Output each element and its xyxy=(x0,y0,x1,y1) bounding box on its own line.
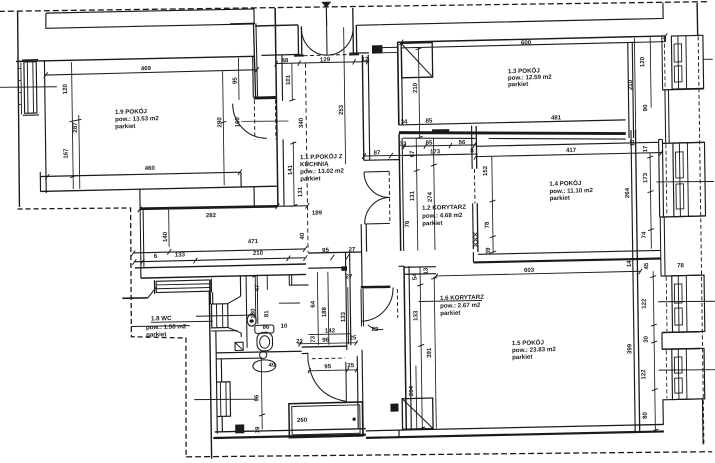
svg-text:parkiet: parkiet xyxy=(550,195,570,203)
korytarz bottom band xyxy=(399,265,405,267)
stair landing lintel xyxy=(254,96,276,99)
svg-text:96: 96 xyxy=(322,337,329,344)
WC washbasin xyxy=(247,314,256,326)
bathroom top wall xyxy=(216,351,302,354)
wall below window4 xyxy=(663,399,703,446)
dim chain 253 xyxy=(344,27,346,164)
svg-text:189: 189 xyxy=(312,209,323,216)
svg-text:82: 82 xyxy=(372,326,379,333)
window2 right (room 1.4) xyxy=(673,142,706,216)
svg-text:101: 101 xyxy=(285,74,292,85)
kitchen double door leaves xyxy=(364,171,390,224)
dim chain 1.5 right xyxy=(653,271,655,431)
dim row 95/25 lower xyxy=(308,370,358,372)
svg-text:274: 274 xyxy=(427,191,434,202)
svg-text:47: 47 xyxy=(254,284,261,292)
dim leader door 160 xyxy=(241,120,288,122)
stair door arc xyxy=(233,103,267,139)
svg-text:86: 86 xyxy=(263,324,270,331)
room 1.3 east wall xyxy=(628,42,634,138)
dim chain bathroom left xyxy=(260,358,263,429)
svg-text:188: 188 xyxy=(321,306,328,317)
black flue square left of bathroom xyxy=(235,424,244,433)
svg-text:87: 87 xyxy=(374,149,381,156)
svg-text:64: 64 xyxy=(310,300,317,308)
svg-text:481: 481 xyxy=(551,114,562,121)
room 1.3 top wall / 600 dim xyxy=(397,36,665,43)
north arrow at entrance xyxy=(321,2,331,8)
svg-text:95: 95 xyxy=(324,363,331,370)
svg-text:167: 167 xyxy=(63,148,70,159)
svg-text:204: 204 xyxy=(408,385,415,396)
1.6 label leader xyxy=(419,300,483,302)
bathtub leader xyxy=(194,398,256,401)
svg-text:19: 19 xyxy=(254,426,261,434)
dim chain 95 right of 1.9 xyxy=(237,58,240,100)
svg-text:131: 131 xyxy=(297,186,304,197)
svg-text:30: 30 xyxy=(643,335,650,343)
pier between window2 and window3 xyxy=(660,217,665,276)
svg-text:260: 260 xyxy=(297,417,308,424)
svg-text:287: 287 xyxy=(72,122,79,133)
entrance door jambs xyxy=(298,25,302,56)
wall between 1.4 and 1.5 xyxy=(478,250,661,255)
room 1.5 bottom wall band xyxy=(366,423,664,431)
svg-text:32: 32 xyxy=(400,141,407,148)
dim row 142 xyxy=(308,334,350,335)
svg-text:90: 90 xyxy=(642,104,649,112)
dim chain 1.3 left 210 xyxy=(418,48,419,137)
dashed line through right windows xyxy=(698,36,704,443)
shaft niche window xyxy=(210,280,213,304)
window2 leader xyxy=(656,180,714,182)
svg-text:152: 152 xyxy=(482,165,489,176)
room 1.9 west wall inner face xyxy=(44,61,46,193)
window left dashes xyxy=(662,37,670,398)
svg-text:290: 290 xyxy=(216,117,223,128)
window 1.9 leader line xyxy=(0,86,57,88)
svg-text:pow.: 13.53 m2: pow.: 13.53 m2 xyxy=(115,115,159,123)
hatched square 1.3 (stove) xyxy=(401,43,432,78)
svg-text:parkiet: parkiet xyxy=(300,175,320,183)
door 1.6 leaf xyxy=(361,289,364,327)
svg-text:210: 210 xyxy=(253,250,264,257)
dim chain 140 left corridor xyxy=(168,210,171,247)
svg-text:469: 469 xyxy=(141,65,152,72)
svg-text:340: 340 xyxy=(298,117,305,128)
room 1.9 top wall outer xyxy=(16,56,255,63)
room 1.3 west wall xyxy=(398,42,399,125)
window4 right (room 1.5 lower) xyxy=(672,348,705,399)
dim tick WC xyxy=(252,275,258,277)
WC bay left wall xyxy=(122,297,148,300)
dim row 22/96/25 xyxy=(298,342,358,344)
svg-text:133: 133 xyxy=(340,311,347,322)
window sashes right edge xyxy=(674,44,682,62)
svg-text:parkiet: parkiet xyxy=(440,310,460,318)
svg-text:parkiet: parkiet xyxy=(512,354,532,362)
svg-text:1.4 POKÓJ: 1.4 POKÓJ xyxy=(549,179,582,188)
svg-text:133: 133 xyxy=(175,251,186,258)
bathroom east wall xyxy=(357,350,363,435)
dim chain room 1.9 left xyxy=(72,62,74,189)
svg-text:95: 95 xyxy=(232,77,239,85)
WC bay window xyxy=(156,280,210,293)
stairwell west wall pair xyxy=(253,23,255,97)
svg-text:74: 74 xyxy=(641,231,648,239)
svg-text:95: 95 xyxy=(322,247,329,254)
bathroom interior west face xyxy=(221,359,222,432)
svg-text:85: 85 xyxy=(426,139,433,146)
svg-text:1.2 KORYTARZ: 1.2 KORYTARZ xyxy=(422,204,466,212)
dim row 48/129/12 xyxy=(275,61,369,64)
svg-text:40: 40 xyxy=(269,362,276,369)
svg-text:13: 13 xyxy=(423,267,430,275)
door 1.2/1.4 dashed xyxy=(473,169,475,204)
room 1.5 west wall xyxy=(404,266,406,430)
dim chains korytarz xyxy=(416,138,418,251)
stair door dashed opening xyxy=(254,100,276,141)
vestibule / hall west wall xyxy=(275,8,278,206)
window room 1.9 west xyxy=(24,62,37,114)
svg-text:34: 34 xyxy=(401,119,408,126)
dim ticks row 471 xyxy=(131,246,307,257)
label 1.8 WC leaders xyxy=(196,315,255,317)
svg-text:253: 253 xyxy=(338,104,345,115)
svg-text:85: 85 xyxy=(426,117,433,124)
wall west of 1.6 (bath/hall separation) xyxy=(346,267,351,350)
svg-text:76: 76 xyxy=(404,220,411,228)
dim row 32/85/56 xyxy=(402,145,476,147)
svg-text:14: 14 xyxy=(626,260,633,268)
exterior wall edge below WC bay xyxy=(209,291,211,459)
svg-text:81: 81 xyxy=(263,310,270,318)
bathroom bottom wall band xyxy=(215,428,366,432)
building mass upper-left outline xyxy=(46,8,255,29)
svg-text:25: 25 xyxy=(347,362,354,369)
corridor 1.6 entry top wall band xyxy=(308,252,362,254)
svg-text:pow.: 1.50 m2: pow.: 1.50 m2 xyxy=(146,323,187,331)
svg-text:45: 45 xyxy=(643,262,650,270)
right exterior wall upper xyxy=(696,3,699,36)
svg-text:78: 78 xyxy=(484,221,491,229)
svg-text:129: 129 xyxy=(320,56,331,63)
door 1.6 arc xyxy=(361,288,393,322)
room 1.9 east wall upper xyxy=(252,56,255,97)
svg-text:1.1 P.POKÓJ Z: 1.1 P.POKÓJ Z xyxy=(300,152,343,161)
dark lintel over korytarz top xyxy=(432,129,449,133)
svg-text:160: 160 xyxy=(234,116,241,127)
wall top of hall left part xyxy=(262,53,301,56)
window1 leader xyxy=(703,58,713,60)
svg-text:391: 391 xyxy=(426,347,433,358)
small hatched square near bathroom top left xyxy=(235,342,243,350)
room 1.4 top wall band / 417 dim xyxy=(476,142,658,147)
svg-text:17: 17 xyxy=(642,145,649,153)
svg-text:10: 10 xyxy=(281,323,288,330)
room 1.3 bottom wall band xyxy=(399,119,626,125)
svg-text:600: 600 xyxy=(521,39,532,46)
svg-text:parkiet: parkiet xyxy=(115,123,135,131)
svg-text:78: 78 xyxy=(677,262,684,269)
svg-text:417: 417 xyxy=(566,147,577,154)
svg-text:48: 48 xyxy=(282,57,289,64)
svg-text:173: 173 xyxy=(430,148,441,155)
svg-text:264: 264 xyxy=(624,187,631,198)
dim chain 101 xyxy=(291,64,294,101)
property boundary dashed left steps xyxy=(18,205,188,461)
svg-text:25: 25 xyxy=(350,335,357,342)
svg-text:22: 22 xyxy=(296,338,303,345)
left exterior wall xyxy=(17,11,21,207)
svg-text:73: 73 xyxy=(310,335,317,343)
svg-text:133: 133 xyxy=(412,310,419,321)
svg-text:471: 471 xyxy=(248,238,259,245)
right exterior top corner xyxy=(664,36,666,42)
svg-text:120: 120 xyxy=(62,83,69,94)
svg-text:122: 122 xyxy=(640,369,647,380)
corridor bottom wall band / 471 dim xyxy=(133,249,305,254)
bathtub xyxy=(289,402,363,438)
dim row 173/8 xyxy=(402,154,472,156)
korytarz 1.2 west wall xyxy=(399,134,401,251)
svg-text:603: 603 xyxy=(524,267,535,274)
svg-text:210: 210 xyxy=(627,79,634,90)
door 1.6 dashed plane xyxy=(396,289,398,318)
svg-text:67: 67 xyxy=(409,150,416,158)
svg-text:460: 460 xyxy=(145,165,156,172)
svg-text:96: 96 xyxy=(253,394,260,402)
room 1.4 east wall xyxy=(631,130,635,431)
dim chains corridor 1.6 xyxy=(317,272,318,345)
building mass above entrance to right xyxy=(356,3,663,26)
svg-text:12: 12 xyxy=(362,56,369,63)
dim chain 152/78/39 xyxy=(492,157,493,253)
svg-text:40: 40 xyxy=(299,232,306,240)
dim chain right of 1.4 xyxy=(650,153,651,249)
svg-text:parkiet: parkiet xyxy=(422,220,442,228)
corridor top wall small verticals at x140 xyxy=(139,189,141,208)
dim 87 line xyxy=(364,153,477,157)
pier between window3 and window4 xyxy=(662,332,700,350)
wall below kitchen door xyxy=(361,224,367,287)
svg-text:39: 39 xyxy=(485,247,492,255)
svg-text:pow.: 13.02 m2: pow.: 13.02 m2 xyxy=(300,168,344,176)
svg-text:282: 282 xyxy=(206,212,217,219)
svg-text:parkiet: parkiet xyxy=(508,81,528,89)
property boundary dashed bottom xyxy=(186,444,712,463)
korytarz 1.2 east wall / 1.4 west wall xyxy=(472,126,474,250)
dim chain 290 xyxy=(223,71,225,185)
dashed vertical hall center xyxy=(305,63,308,252)
svg-text:140: 140 xyxy=(162,231,169,242)
room 1.9 top wall inner / 469 dim line xyxy=(46,70,257,75)
entrance double door arcs xyxy=(326,18,329,55)
svg-text:pow.: 11.10 m2: pow.: 11.10 m2 xyxy=(549,187,593,195)
window1 right (room 1.3) xyxy=(661,36,664,90)
hall lower wall thick xyxy=(140,205,278,209)
svg-text:pow.: 2.67 m2: pow.: 2.67 m2 xyxy=(440,302,481,310)
window3 right (room 1.5 upper) xyxy=(661,275,704,276)
svg-text:180: 180 xyxy=(250,308,257,319)
svg-text:120: 120 xyxy=(639,56,646,67)
svg-text:80: 80 xyxy=(642,411,649,419)
hatched square 1.5 (stove) xyxy=(402,398,433,429)
kitchen double door opening dashed xyxy=(388,171,391,223)
svg-text:1.8 WC: 1.8 WC xyxy=(151,315,172,323)
svg-text:210: 210 xyxy=(412,82,419,93)
svg-text:142: 142 xyxy=(325,327,336,334)
dim chains 1.5 left xyxy=(420,266,422,428)
bathroom door leaf and arc xyxy=(345,362,348,402)
WC toilet xyxy=(255,325,274,333)
svg-text:54: 54 xyxy=(411,273,418,281)
svg-text:1.6 KORYTARZ: 1.6 KORYTARZ xyxy=(440,294,484,302)
svg-text:141: 141 xyxy=(287,164,294,175)
small lower arc xyxy=(368,325,384,330)
dim chains 1.3 right xyxy=(634,38,635,132)
svg-text:10: 10 xyxy=(629,139,636,147)
svg-text:173: 173 xyxy=(642,172,649,183)
svg-text:pow.: 4.68 m2: pow.: 4.68 m2 xyxy=(422,212,463,220)
property boundary dashed top xyxy=(0,0,707,19)
wall hatch section on 1.4 west wall xyxy=(473,232,478,247)
hall east wall xyxy=(362,55,363,160)
bathroom washbasin xyxy=(253,360,276,373)
bathroom west window xyxy=(217,382,231,417)
dim chain 141 xyxy=(292,142,295,206)
svg-text:27: 27 xyxy=(349,246,356,253)
svg-text:56: 56 xyxy=(459,139,466,146)
svg-text:parkiet: parkiet xyxy=(146,331,166,339)
svg-text:pow.: 23.83 m2: pow.: 23.83 m2 xyxy=(512,346,556,354)
exterior wall right of 1.4 xyxy=(659,139,664,216)
svg-text:399: 399 xyxy=(626,343,633,354)
svg-text:122: 122 xyxy=(641,298,648,309)
room 1.9 bottom wall band xyxy=(41,171,241,177)
svg-text:131: 131 xyxy=(409,190,416,201)
603 dim line xyxy=(436,271,641,277)
door 1.6 wall stub xyxy=(361,287,391,288)
svg-text:27: 27 xyxy=(346,273,353,280)
WC interior walls xyxy=(239,276,242,337)
black flue at hall top right xyxy=(372,45,383,53)
